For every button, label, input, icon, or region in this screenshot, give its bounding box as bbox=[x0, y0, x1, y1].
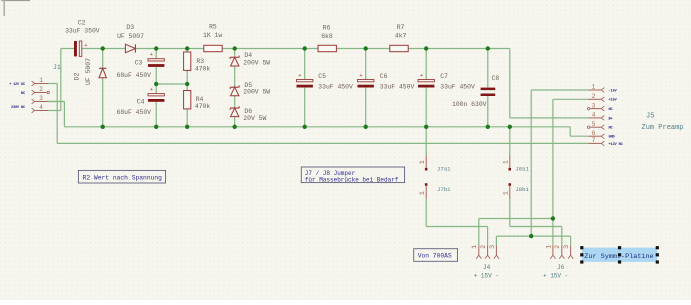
wire GND rail right jog to J5 pin6 bbox=[570, 127, 588, 136]
node C7 top bbox=[424, 46, 428, 50]
svg-text:D2: D2 bbox=[74, 73, 81, 81]
wire B+ right descent bbox=[509, 49, 511, 118]
wire 230V input vertical bbox=[60, 49, 62, 111]
svg-text:J8b1: J8b1 bbox=[515, 186, 529, 193]
svg-text:1: 1 bbox=[419, 160, 427, 164]
connector J6 bbox=[545, 245, 573, 259]
wire J8b to J6 pin2 bbox=[510, 199, 562, 246]
svg-text:+: + bbox=[84, 42, 87, 49]
label C3 bbox=[117, 60, 152, 79]
svg-text:R7: R7 bbox=[397, 24, 405, 31]
wire J8 jumper top bbox=[509, 127, 511, 155]
wire GND rail bbox=[64, 126, 570, 128]
svg-text:D6: D6 bbox=[244, 108, 252, 115]
label D2 bbox=[74, 58, 93, 85]
pin numbers J5 bbox=[592, 84, 596, 144]
node C4 bottom bbox=[154, 125, 158, 129]
svg-text:3: 3 bbox=[489, 245, 497, 249]
svg-text:J5: J5 bbox=[646, 113, 654, 121]
svg-text:4: 4 bbox=[39, 104, 43, 111]
wire J6 pin3 riser bbox=[570, 236, 572, 246]
svg-text:C6: C6 bbox=[380, 73, 388, 80]
capacitor C8 bbox=[481, 88, 496, 96]
wire B+ top rail R7 to corner bbox=[408, 48, 510, 50]
svg-text:-15V: -15V bbox=[609, 89, 618, 93]
label J8a1 bbox=[515, 165, 529, 172]
svg-text:4k7: 4k7 bbox=[395, 32, 407, 39]
zener D5 bbox=[230, 85, 239, 95]
svg-text:R6: R6 bbox=[323, 25, 331, 32]
svg-text:C5: C5 bbox=[318, 73, 326, 80]
node R4 bottom bbox=[185, 125, 189, 129]
svg-text:33uF 350V: 33uF 350V bbox=[65, 28, 100, 35]
svg-text:+ 15V -: + 15V - bbox=[543, 272, 568, 279]
note box R2 bbox=[78, 170, 165, 183]
label J4 bbox=[474, 264, 499, 279]
label D5 bbox=[243, 82, 270, 96]
wire J4 pin3 riser bbox=[495, 236, 497, 246]
wire C5 column bbox=[304, 49, 306, 127]
label J1 bbox=[53, 64, 61, 71]
label R7 bbox=[395, 24, 407, 40]
svg-text:33uF 450V: 33uF 450V bbox=[440, 83, 475, 90]
net labels J5 bbox=[609, 89, 624, 146]
wire -15V rail H3 bbox=[496, 235, 570, 237]
label J6 bbox=[543, 264, 568, 279]
node C5 bottom bbox=[303, 125, 307, 129]
resistor R3 bbox=[184, 52, 191, 70]
wire C8 column bbox=[487, 49, 489, 127]
svg-text:R3: R3 bbox=[196, 58, 204, 65]
wire D4/D5/D6 column bbox=[234, 49, 236, 127]
jumper J7a1 bbox=[419, 155, 428, 171]
node D2 bottom bbox=[101, 125, 105, 129]
wire J7 jumper top bbox=[425, 127, 427, 155]
svg-text:470k: 470k bbox=[195, 103, 211, 110]
svg-text:200V 5W: 200V 5W bbox=[243, 59, 270, 66]
zener D4 bbox=[230, 56, 239, 67]
svg-text:2: 2 bbox=[592, 93, 596, 100]
pin numbers J1 bbox=[39, 77, 43, 111]
node C7/J7 gnd bbox=[424, 125, 428, 129]
svg-text:für Massebrücke bei Bedarf: für Massebrücke bei Bedarf bbox=[305, 176, 399, 183]
svg-text:68uF 450V: 68uF 450V bbox=[117, 72, 152, 79]
wire +12V long line to J5 pin7 bbox=[57, 142, 588, 144]
capacitor C7 bbox=[418, 72, 434, 88]
svg-text:+12V NC: +12V NC bbox=[609, 143, 624, 147]
svg-text:Zum Preamp: Zum Preamp bbox=[642, 124, 684, 132]
wire +12V vertical from J1 pin1 bbox=[56, 84, 58, 144]
wire C3/C4 column bbox=[155, 49, 157, 127]
wire +15V rail H1 bbox=[479, 218, 553, 220]
node C5 top bbox=[303, 46, 307, 50]
svg-text:C7: C7 bbox=[440, 73, 448, 80]
label J7a1 bbox=[437, 165, 451, 172]
svg-text:+: + bbox=[150, 51, 153, 58]
label C7 bbox=[440, 73, 475, 90]
svg-text:2: 2 bbox=[39, 86, 43, 93]
svg-text:200V 5W: 200V 5W bbox=[243, 88, 270, 95]
capacitor C2 bbox=[74, 41, 88, 56]
label R6 bbox=[321, 25, 333, 40]
node D2 top bbox=[101, 46, 105, 50]
label J5 bbox=[642, 113, 684, 132]
wire J5 pin1 -15V bbox=[531, 90, 588, 236]
wire B+ top rail segment C2-left bbox=[61, 48, 74, 50]
label C4 bbox=[117, 98, 152, 116]
svg-text:6k8: 6k8 bbox=[321, 33, 333, 40]
node D6 bottom bbox=[233, 125, 237, 129]
wire J7b to J4 pin2 bbox=[426, 199, 487, 246]
node mid R3/R4 bbox=[185, 82, 189, 86]
svg-text:C8: C8 bbox=[492, 75, 500, 82]
svg-text:3: 3 bbox=[592, 102, 596, 109]
zener D6 bbox=[230, 106, 239, 116]
node R3 top bbox=[185, 46, 189, 50]
node C8 top bbox=[486, 46, 490, 50]
resistor R6 bbox=[318, 45, 336, 51]
svg-text:1: 1 bbox=[471, 245, 479, 249]
jumper J7b1 bbox=[419, 183, 428, 199]
svg-text:UF 5007: UF 5007 bbox=[117, 33, 144, 40]
wire B+ top rail D3 to R5 bbox=[135, 48, 203, 50]
label D4 bbox=[243, 52, 270, 66]
jumper J8a1 bbox=[502, 155, 511, 171]
wire C7 column bbox=[425, 49, 427, 127]
net label NC J1-2 bbox=[21, 92, 26, 96]
label C5 bbox=[318, 73, 353, 90]
svg-text:230V NC: 230V NC bbox=[11, 106, 26, 110]
svg-text:J8a1: J8a1 bbox=[515, 165, 529, 172]
svg-text:2: 2 bbox=[554, 245, 562, 249]
net label 230V NC bbox=[11, 106, 26, 110]
svg-text:R5: R5 bbox=[209, 23, 217, 30]
svg-text:J4: J4 bbox=[483, 264, 491, 271]
svg-text:+: + bbox=[150, 86, 153, 93]
capacitor C5 bbox=[297, 72, 313, 88]
selected label Zur Symm.-Platine bbox=[580, 246, 659, 264]
wire R3/R4 column bbox=[186, 49, 188, 127]
capacitor C4 bbox=[148, 86, 164, 102]
svg-text:6: 6 bbox=[592, 130, 596, 137]
wire mid rail C3/C4 to R3/R4 bbox=[156, 83, 187, 85]
svg-text:470k: 470k bbox=[195, 65, 211, 72]
svg-text:J7b1: J7b1 bbox=[437, 186, 451, 193]
svg-text:68uF 450V: 68uF 450V bbox=[117, 109, 152, 116]
svg-text:GND: GND bbox=[609, 136, 616, 140]
svg-text:Von 700AS: Von 700AS bbox=[418, 253, 452, 260]
node -15V junction bbox=[529, 234, 533, 238]
svg-text:D4: D4 bbox=[244, 52, 252, 59]
wire B+ to J5 pin4 bbox=[510, 117, 589, 119]
node mid C3/C4 bbox=[154, 82, 158, 86]
svg-text:4: 4 bbox=[592, 112, 596, 119]
svg-text:3: 3 bbox=[563, 245, 571, 249]
diode D3 bbox=[125, 44, 135, 52]
svg-text:1: 1 bbox=[39, 77, 43, 84]
wire B+ top rail C2 to D3 bbox=[82, 48, 126, 50]
svg-text:7: 7 bbox=[592, 137, 596, 144]
svg-text:D3: D3 bbox=[126, 24, 134, 31]
note box J7/J8 bbox=[301, 167, 404, 183]
note box Von 700AS bbox=[414, 249, 458, 262]
svg-text:C4: C4 bbox=[137, 98, 145, 105]
svg-text:33uF 450V: 33uF 450V bbox=[318, 83, 353, 90]
svg-text:J7a1: J7a1 bbox=[437, 165, 451, 172]
node C8 bottom bbox=[486, 125, 490, 129]
resistor R4 bbox=[184, 91, 191, 109]
svg-text:+: + bbox=[298, 72, 301, 79]
svg-text:J6: J6 bbox=[557, 264, 565, 271]
label C2 bbox=[65, 20, 100, 35]
connector J5 bbox=[587, 88, 604, 146]
svg-text:1: 1 bbox=[592, 84, 596, 91]
svg-text:1: 1 bbox=[419, 191, 427, 195]
svg-text:+ 15V -: + 15V - bbox=[474, 272, 499, 279]
wire J4 pin1 riser bbox=[478, 219, 480, 246]
svg-text:1: 1 bbox=[545, 245, 553, 249]
node D4 top bbox=[233, 46, 237, 50]
node C6 bottom bbox=[364, 125, 368, 129]
diode D2 bbox=[99, 68, 106, 78]
label R5 bbox=[203, 23, 222, 39]
svg-text:1: 1 bbox=[502, 160, 510, 164]
label C6 bbox=[380, 73, 415, 90]
screen-edge artifact bbox=[2, 0, 31, 16]
svg-text:1K 1w: 1K 1w bbox=[203, 32, 222, 39]
label D6 bbox=[243, 108, 266, 122]
svg-text:C3: C3 bbox=[135, 60, 143, 67]
label C8 bbox=[452, 75, 499, 108]
node +15V junction bbox=[551, 216, 555, 220]
svg-text:2: 2 bbox=[480, 245, 488, 249]
svg-text:33uF 450V: 33uF 450V bbox=[380, 83, 415, 90]
svg-text:100n 630V: 100n 630V bbox=[452, 101, 487, 108]
jumper J8b1 bbox=[502, 183, 511, 199]
capacitor C6 bbox=[358, 72, 374, 88]
wire B+ top rail R5 to R6 bbox=[222, 48, 318, 50]
node C3 top bbox=[154, 46, 158, 50]
capacitor C3 bbox=[148, 51, 164, 67]
label R3 bbox=[195, 58, 211, 72]
wire C6 column bbox=[365, 49, 367, 127]
wire J1 pin3 to GND bbox=[48, 102, 64, 127]
label R4 bbox=[195, 96, 211, 110]
svg-text:5: 5 bbox=[592, 121, 596, 128]
wire J5 pin2 +15V bbox=[553, 99, 589, 245]
svg-text:+ 12V DC: + 12V DC bbox=[9, 83, 26, 87]
node C6 top bbox=[364, 46, 368, 50]
svg-text:R2 Wert nach Spannung: R2 Wert nach Spannung bbox=[83, 174, 163, 181]
label J7b1 bbox=[437, 186, 451, 193]
connector J4 bbox=[471, 245, 499, 259]
svg-text:3: 3 bbox=[39, 95, 43, 102]
svg-text:1: 1 bbox=[502, 191, 510, 195]
wire D2 column bbox=[102, 49, 104, 127]
label J8b1 bbox=[515, 186, 529, 193]
svg-text:+15V: +15V bbox=[609, 99, 618, 103]
label D3 bbox=[117, 24, 144, 40]
net label +12V DC bbox=[9, 83, 26, 87]
svg-text:J1: J1 bbox=[53, 64, 61, 71]
connector J1 bbox=[32, 81, 65, 113]
node J8 gnd bbox=[508, 125, 512, 129]
wire B+ top rail R6 to R7 bbox=[336, 48, 389, 50]
resistor R5 bbox=[204, 45, 222, 51]
svg-text:UF 5007: UF 5007 bbox=[85, 58, 92, 85]
svg-text:20V 5W: 20V 5W bbox=[243, 115, 266, 122]
svg-text:C2: C2 bbox=[78, 20, 86, 27]
svg-text:+: + bbox=[420, 72, 423, 79]
resistor R7 bbox=[390, 45, 408, 51]
svg-text:+: + bbox=[359, 72, 362, 79]
